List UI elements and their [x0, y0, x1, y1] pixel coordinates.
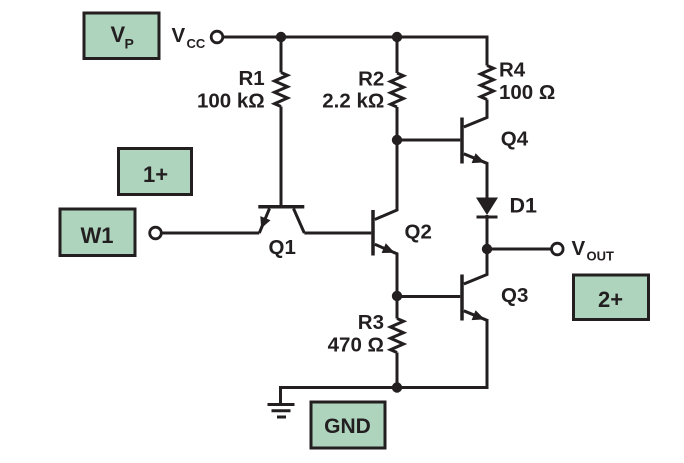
svg-text:CC: CC: [187, 36, 206, 51]
wire: Q1 collector to Q2 base: [304, 232, 371, 235]
label Q1: [269, 236, 296, 259]
svg-text:D1: D1: [510, 193, 538, 217]
svg-text:Q4: Q4: [501, 128, 529, 151]
wire: node E to Q3 base: [397, 295, 460, 298]
wire: VCC terminal to node A: [223, 36, 281, 39]
svg-text:R3: R3: [358, 311, 384, 334]
terminal VCC: [211, 31, 223, 43]
label VCC: [172, 24, 206, 51]
svg-text:2+: 2+: [598, 287, 623, 312]
resistor R1: [275, 37, 288, 107]
label VP: [111, 22, 134, 52]
label W1: [81, 223, 114, 248]
junction node C (R2/Q4 base): [392, 135, 402, 145]
junction node F (R3/ground rail): [392, 382, 402, 392]
R4 value label: [499, 59, 555, 105]
svg-text:Q3: Q3: [501, 284, 528, 307]
label Q2: [405, 221, 432, 244]
green box 2+: [574, 275, 649, 320]
terminal W1: [150, 227, 162, 239]
green box GND: [311, 402, 385, 448]
svg-text:470 Ω: 470 Ω: [328, 334, 384, 357]
label D1: [510, 193, 538, 217]
green box 1+: [119, 149, 192, 195]
svg-text:Q1: Q1: [269, 236, 296, 259]
green box W1: [60, 209, 135, 256]
transistor Q2: [373, 140, 397, 296]
junction node B (VCC/R2): [392, 32, 402, 42]
label 2+: [598, 287, 623, 312]
ground: [268, 405, 295, 418]
label VOUT: [572, 237, 615, 264]
transistor Q1: [258, 107, 304, 234]
svg-text:2.2 kΩ: 2.2 kΩ: [322, 89, 384, 112]
wire: ground stem to node F (bottom rail left): [281, 388, 398, 405]
label Q3: [501, 284, 528, 307]
label Q4: [501, 128, 529, 151]
svg-text:OUT: OUT: [587, 249, 615, 264]
svg-text:Q2: Q2: [405, 221, 432, 244]
svg-text:R2: R2: [358, 67, 384, 90]
svg-text:GND: GND: [324, 415, 371, 438]
junction node E (Q2 emitter/R3/Q3 base): [392, 291, 402, 301]
wire: node F to Q3 emitter (bottom rail right): [397, 319, 487, 388]
svg-text:100 Ω: 100 Ω: [499, 81, 555, 104]
svg-text:V: V: [172, 24, 186, 47]
svg-text:R4: R4: [499, 59, 526, 82]
transistor Q4: [462, 100, 487, 198]
green box VP: [84, 13, 159, 59]
R3 value label: [328, 311, 384, 357]
diode D1: [476, 198, 498, 250]
svg-text:R1: R1: [238, 67, 264, 90]
wire: W1 terminal to Q1 emitter: [162, 232, 259, 235]
label GND: [324, 415, 371, 438]
wire: node C to Q4 base: [397, 139, 460, 142]
wire: node D to VOUT terminal: [487, 248, 552, 251]
terminal VOUT: [552, 243, 564, 255]
svg-text:V: V: [111, 22, 126, 47]
svg-text:1+: 1+: [143, 162, 168, 187]
svg-text:100 kΩ: 100 kΩ: [197, 90, 265, 113]
svg-text:V: V: [572, 237, 586, 260]
wire: node A to node B (top rail): [281, 36, 397, 39]
R2 value label: [322, 67, 384, 112]
wire: node B to R4 top: [397, 37, 487, 66]
svg-text:W1: W1: [81, 223, 114, 248]
svg-text:P: P: [125, 36, 134, 52]
transistor Q3: [462, 249, 487, 321]
label 1+: [143, 162, 168, 187]
junction node D (D1/Q3 collector/VOUT): [482, 244, 492, 254]
junction node A (VCC/R1): [276, 32, 286, 42]
resistor R4: [481, 66, 494, 100]
R1 value label: [197, 67, 265, 113]
resistor R2: [391, 37, 404, 140]
resistor R3: [391, 296, 404, 389]
